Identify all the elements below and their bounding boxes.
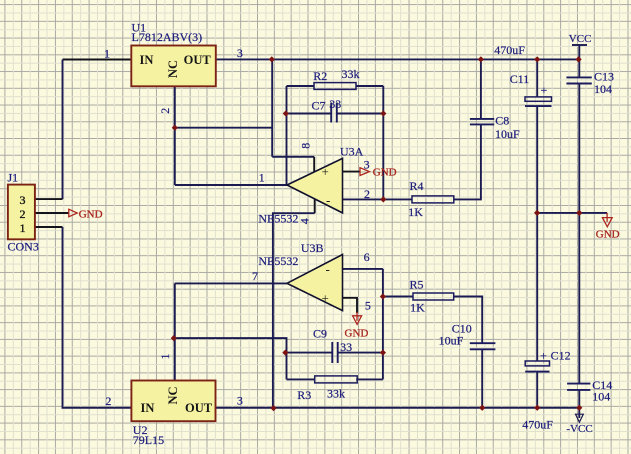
op-amp U3A — [287, 145, 364, 213]
svg-text:CON3: CON3 — [8, 239, 39, 253]
wire: vertical from +12V rail down — [271, 59, 273, 156]
svg-text:U3A: U3A — [340, 145, 364, 159]
svg-text:2: 2 — [20, 207, 26, 221]
wire: U3B pin 6 — [343, 268, 383, 270]
resistor R4 — [408, 179, 454, 219]
svg-text:IN: IN — [141, 401, 155, 415]
wire: horizontal to U3A pin 8 — [272, 156, 314, 158]
svg-text:33k: 33k — [342, 67, 360, 81]
wire: branch from U2 NC junction to feedback node — [175, 338, 287, 379]
wire: C12 bottom lead — [536, 372, 538, 408]
svg-text:OUT: OUT — [184, 53, 212, 67]
wire: C12 top lead — [536, 213, 538, 361]
svg-text:104: 104 — [592, 389, 610, 403]
junction at bottom rail C10 — [480, 405, 485, 410]
wire: branch from U1 NC junction to op-amp supply drop — [175, 127, 272, 129]
junction at C7 right — [381, 111, 386, 116]
capacitor C7 — [312, 97, 342, 123]
resistor R5 — [410, 278, 454, 315]
svg-text:8: 8 — [299, 143, 313, 149]
svg-text:3: 3 — [237, 46, 243, 60]
wire: J1 pin 1 — [35, 226, 63, 228]
capacitor C12 polarized 470uF — [522, 349, 570, 432]
svg-text:5: 5 — [365, 299, 371, 313]
wire: U3B pin 6 junction to R5 — [383, 296, 413, 298]
svg-text:GND: GND — [373, 167, 397, 179]
wire: R4 right lead up to C8 — [454, 124, 481, 199]
wire: U3A pin 3 to GND — [343, 171, 360, 173]
svg-text:L7812ABV(3): L7812ABV(3) — [132, 30, 203, 44]
svg-text:NC: NC — [166, 60, 180, 78]
wire: U3A output line — [175, 184, 287, 186]
svg-text:R4: R4 — [410, 179, 424, 193]
junction at U3B pin6 — [381, 294, 386, 299]
wire: U2 NC pin vertical — [174, 283, 176, 380]
junction at C9 left — [283, 350, 288, 355]
capacitor C10 — [439, 322, 496, 350]
svg-text:1K: 1K — [410, 301, 425, 315]
svg-text:C8: C8 — [495, 114, 509, 128]
wire: R3 left lead — [287, 378, 315, 380]
wire: C9 left lead — [287, 352, 333, 354]
svg-text:R3: R3 — [297, 388, 311, 402]
wire: C7 left lead — [287, 113, 332, 115]
svg-text:1: 1 — [104, 47, 110, 61]
svg-text:-: - — [326, 193, 330, 208]
junction at C11 top — [535, 57, 540, 62]
svg-text:R2: R2 — [313, 69, 327, 83]
wire: top +12V rail from U1 OUT to VCC — [216, 58, 579, 60]
resistor R3 — [297, 376, 357, 402]
svg-text:6: 6 — [364, 250, 370, 264]
svg-text:IN: IN — [140, 53, 154, 67]
svg-text:GND: GND — [596, 228, 620, 240]
svg-text:2: 2 — [158, 108, 172, 114]
junction at U1 pin3 rail — [269, 57, 274, 62]
ground symbol at U3A pin 3 — [360, 167, 397, 179]
power VCC symbol — [569, 33, 592, 45]
wire: feedback node A vertical — [286, 86, 288, 185]
wire: left vertical J1 pin3 up to U1 pin1 — [62, 60, 64, 200]
junction at mid rail C11 — [535, 211, 540, 216]
svg-text:33k: 33k — [327, 387, 345, 401]
junction at C7 left — [283, 111, 288, 116]
junction at bottom rail supply drop — [271, 406, 276, 411]
op-amp U3B — [287, 241, 343, 311]
wire: C10 bottom lead to bottom rail — [481, 349, 483, 408]
svg-text:C7: C7 — [312, 99, 326, 113]
svg-text:+: + — [322, 164, 329, 179]
wire: U3B pin 5 to GND — [343, 298, 358, 313]
wire: U3A pin 4 supply path to bottom rail — [314, 199, 316, 214]
wire: R3 right lead — [356, 378, 383, 380]
wire: feedback node B2 vertical — [382, 269, 384, 380]
connector J1 — [8, 170, 39, 253]
power -VCC symbol — [566, 408, 592, 435]
svg-text:1: 1 — [259, 171, 265, 185]
svg-text:33: 33 — [329, 97, 341, 111]
junction at bottom rail end — [577, 405, 582, 410]
svg-text:3: 3 — [20, 193, 26, 207]
wire: C7 right lead — [337, 113, 384, 115]
svg-text:3: 3 — [237, 394, 243, 408]
svg-text:+: + — [540, 349, 547, 363]
svg-text:GND: GND — [345, 327, 369, 339]
svg-text:1K: 1K — [408, 205, 423, 219]
svg-text:4: 4 — [298, 218, 312, 224]
ground symbol at J1 pin 2 — [69, 208, 103, 220]
svg-text:7: 7 — [252, 269, 258, 283]
capacitor C14 — [567, 378, 612, 403]
svg-text:1: 1 — [158, 354, 172, 360]
capacitor C13 — [566, 70, 614, 96]
junction at U3A pin2 — [381, 197, 386, 202]
wire: U3A pin 8 stub — [313, 157, 315, 173]
wire: U1 NC pin down to U3A output line — [174, 86, 176, 185]
wire: feedback node B vertical — [382, 86, 384, 199]
svg-text:U3B: U3B — [301, 241, 324, 255]
capacitor C9 — [313, 327, 352, 364]
svg-text:-VCC: -VCC — [566, 423, 592, 435]
wire: C14 bottom lead — [578, 390, 580, 408]
wire: C13 bottom lead to mid GND rail — [578, 84, 580, 213]
wire: bottom -12V rail — [216, 407, 580, 409]
wire: VCC drop — [578, 45, 580, 77]
svg-text:10uF: 10uF — [439, 334, 464, 348]
svg-text:R5: R5 — [410, 278, 424, 292]
wire: R2 right lead — [356, 85, 383, 87]
wire: U3B output line — [175, 282, 287, 284]
wire: left vertical J1 pin1 down to U2 IN — [63, 227, 132, 408]
wire: U3A pin 2 to R4 — [343, 198, 413, 200]
svg-text:104: 104 — [594, 82, 612, 96]
wire: C11 top lead — [536, 59, 538, 97]
svg-text:33: 33 — [340, 340, 352, 354]
svg-text:2: 2 — [105, 394, 111, 408]
ground symbol at U3B pin 5 — [345, 316, 369, 340]
svg-text:GND: GND — [79, 208, 103, 220]
wire: C11 bottom lead to mid GND rail — [536, 106, 538, 213]
svg-text:C12: C12 — [551, 349, 571, 363]
junction at U2 NC branch — [171, 336, 176, 341]
svg-text:470uF: 470uF — [522, 418, 553, 432]
svg-text:OUT: OUT — [185, 401, 213, 415]
regulator U2 — [131, 381, 215, 448]
svg-text:10uF: 10uF — [495, 127, 520, 141]
svg-text:C9: C9 — [313, 327, 327, 341]
junction at C9 right — [381, 350, 386, 355]
svg-text:VCC: VCC — [569, 33, 592, 45]
wire: R5 right lead down to C10 — [454, 297, 483, 344]
wire: C14 top lead — [578, 213, 580, 384]
regulator U1 — [131, 20, 216, 86]
wire: J1 pin 3 — [35, 198, 63, 200]
junction at C8 top — [479, 57, 484, 62]
svg-text:NE5532: NE5532 — [258, 211, 298, 225]
svg-text:+: + — [541, 83, 548, 97]
svg-text:C11: C11 — [510, 72, 530, 86]
wire: mid GND rail — [537, 212, 607, 214]
svg-text:NE5532: NE5532 — [258, 254, 298, 268]
ground symbol at mid rail — [596, 213, 620, 241]
junction at U1 NC branch — [172, 125, 177, 130]
svg-text:79L15: 79L15 — [133, 433, 164, 447]
svg-text:NC: NC — [166, 386, 180, 404]
svg-text:1: 1 — [20, 221, 26, 235]
junction at bottom rail C12 — [535, 405, 540, 410]
wire: J1 pin 2 to GND — [35, 212, 69, 214]
wire: C8 top lead — [480, 59, 482, 119]
svg-text:J1: J1 — [8, 170, 19, 184]
wire: U1 pin1 to left vertical — [63, 59, 132, 61]
svg-text:2: 2 — [364, 187, 370, 201]
wire: R2 left lead — [287, 85, 315, 87]
svg-text:-: - — [326, 262, 330, 277]
wire: C9 right lead — [338, 352, 383, 354]
resistor R2 — [313, 67, 359, 89]
svg-text:+: + — [322, 291, 329, 306]
svg-text:470uF: 470uF — [494, 43, 525, 57]
junction at mid rail C13 — [577, 211, 582, 216]
capacitor C11 polarized 470uF — [494, 43, 551, 106]
junction at VCC rail end — [576, 57, 581, 62]
capacitor C8 — [470, 114, 520, 141]
